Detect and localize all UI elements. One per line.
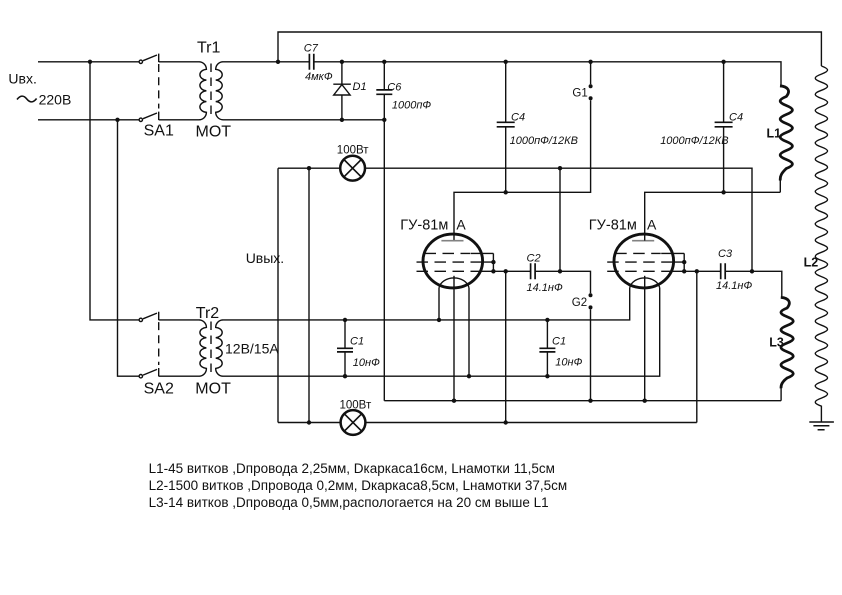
svg-text:ГУ-81м: ГУ-81м bbox=[400, 218, 448, 234]
junction lamp row / grid stub bbox=[558, 166, 562, 170]
svg-text:МОТ: МОТ bbox=[196, 124, 232, 141]
svg-text:C2: C2 bbox=[527, 253, 541, 265]
junction C3 wire / lamp row bbox=[750, 269, 754, 273]
svg-text:МОТ: МОТ bbox=[195, 381, 231, 398]
svg-text:4мкФ: 4мкФ bbox=[305, 71, 333, 83]
svg-text:SA1: SA1 bbox=[144, 123, 174, 140]
svg-text:L2-1500 витков ,Dпровода 0,2мм: L2-1500 витков ,Dпровода 0,2мм, Dкаркаса… bbox=[149, 478, 568, 493]
svg-text:Uвых.: Uвых. bbox=[246, 250, 285, 266]
svg-text:L3: L3 bbox=[769, 336, 784, 350]
svg-text:L2: L2 bbox=[804, 256, 819, 270]
wire C6 down to H7 bbox=[383, 120, 385, 401]
wire SA2 to Tr2 primary bottom bbox=[159, 375, 200, 377]
ground bbox=[809, 422, 834, 430]
svg-text:C3: C3 bbox=[718, 248, 733, 260]
capacitor C6 bbox=[376, 62, 392, 120]
junction U1 grid bracket upper bbox=[491, 260, 495, 264]
junction U2 grid wire / down wire bbox=[695, 269, 699, 273]
wire lamp row H4 right bbox=[365, 168, 752, 271]
wire input top to SA2 bbox=[90, 62, 139, 320]
capacitor C2 bbox=[531, 263, 536, 279]
junction rail / C4 second bbox=[721, 60, 725, 64]
junction U2 grid bracket lower bbox=[682, 269, 686, 273]
wire H8 grid return right bbox=[366, 422, 697, 424]
svg-text:C4: C4 bbox=[729, 111, 743, 123]
svg-text:Uвх.: Uвх. bbox=[8, 71, 36, 87]
capacitor C3 bbox=[721, 263, 726, 279]
wire input top bbox=[38, 61, 139, 63]
capacitor C4 second bbox=[715, 62, 733, 193]
lamp EL1 100W bbox=[340, 156, 365, 181]
lamp EL2 100W bbox=[341, 410, 366, 435]
svg-text:ГУ-81м: ГУ-81м bbox=[589, 218, 637, 234]
svg-text:D1: D1 bbox=[353, 81, 367, 93]
wire stub H4 to grid wire bbox=[559, 168, 561, 271]
junction H5 / C1 second bbox=[545, 318, 549, 322]
junction H7 / U1 filament bbox=[452, 399, 456, 403]
wire output loop right bbox=[308, 168, 310, 422]
junction input bottom / SA2 feed bbox=[115, 118, 119, 122]
wire U1 filament mid to H7 bbox=[453, 276, 455, 401]
junction U1 grid bracket lower bbox=[491, 269, 495, 273]
svg-text:14.1нФ: 14.1нФ bbox=[527, 282, 563, 294]
junction input top / SA2 feed bbox=[88, 60, 92, 64]
wire G2 to H7 bbox=[590, 309, 592, 400]
wire U2 filament mid to H7 bbox=[644, 276, 646, 401]
node G1 link from rail bbox=[590, 62, 592, 85]
wire lamp row H4 left bbox=[278, 167, 340, 169]
wire C3 to L3 top bbox=[725, 271, 782, 296]
wire top rail bbox=[223, 62, 781, 88]
svg-text:A: A bbox=[456, 217, 466, 233]
svg-text:C6: C6 bbox=[387, 82, 402, 94]
wire U2 grid to C3 bbox=[684, 270, 721, 272]
node G2 bbox=[589, 293, 593, 297]
junction H7 / U2 filament bbox=[643, 399, 647, 403]
wire U1 cathode left to H5 bbox=[438, 288, 440, 320]
svg-text:C1: C1 bbox=[350, 336, 364, 348]
diode D1 bbox=[333, 62, 351, 120]
svg-text:1000пФ/12КВ: 1000пФ/12КВ bbox=[510, 135, 578, 147]
junction rail / D1 bbox=[340, 60, 344, 64]
junction H7 / G2 wire bbox=[588, 399, 592, 403]
junction U2 grid bracket upper bbox=[682, 260, 686, 264]
junction lamp row / output loop bbox=[307, 166, 311, 170]
inductor L1 bbox=[780, 86, 792, 181]
wire input bottom bbox=[38, 119, 139, 121]
junction rail / C4 first bbox=[504, 60, 508, 64]
wire G1 to anode of U1 bbox=[454, 100, 591, 240]
junction H6 / C1 second bbox=[545, 374, 549, 378]
svg-text:Tr1: Tr1 bbox=[197, 39, 221, 56]
tube U1 GU-81m bbox=[417, 234, 494, 288]
svg-text:14.1нФ: 14.1нФ bbox=[716, 280, 752, 292]
svg-text:Tr2: Tr2 bbox=[196, 305, 220, 322]
wire grid2 node down to H8 bbox=[696, 271, 698, 422]
wire U1 cathode right to H6 bbox=[468, 288, 470, 376]
junction rail / G1 link bbox=[588, 60, 592, 64]
wire Tr1 secondary bottom bbox=[223, 119, 385, 121]
junction H5 / U1 cathode left bbox=[437, 318, 441, 322]
svg-text:C4: C4 bbox=[511, 111, 525, 123]
junction H8 / output loop bbox=[307, 420, 311, 424]
svg-text:G1: G1 bbox=[572, 88, 587, 100]
svg-text:1000пФ: 1000пФ bbox=[392, 100, 432, 112]
svg-text:L1-45 витков ,Dпровода 2,25мм,: L1-45 витков ,Dпровода 2,25мм, Dкаркаса1… bbox=[149, 461, 555, 476]
junction Tr1 secondary bottom / C6 bbox=[382, 118, 386, 122]
wire U2 anode to C4 and L1 bbox=[645, 192, 781, 240]
wire H8 grid return left bbox=[278, 422, 341, 424]
wire SA1 to Tr1 primary top bbox=[159, 61, 200, 63]
transformer Tr1 bbox=[199, 62, 223, 120]
tube U2 GU-81m bbox=[607, 234, 684, 288]
capacitor C1 first bbox=[337, 320, 353, 376]
AC tilde bbox=[17, 96, 37, 102]
svg-text:10нФ: 10нФ bbox=[353, 357, 380, 369]
junction anode U2 / C4 second bbox=[721, 190, 725, 194]
junction H5 / C1 first bbox=[343, 318, 347, 322]
svg-text:L1: L1 bbox=[767, 126, 782, 140]
capacitor C1 second bbox=[539, 320, 555, 376]
junction rail / top link bbox=[276, 60, 280, 64]
wire input bottom to SA2 bbox=[118, 120, 139, 376]
wire grid1 node down to H8 bbox=[505, 271, 507, 422]
wire U1 grid to C2 bbox=[493, 270, 530, 272]
inductor L2 bbox=[815, 66, 827, 422]
svg-text:SA2: SA2 bbox=[144, 380, 174, 397]
wire C2 to G2 bbox=[535, 271, 590, 293]
svg-text:220В: 220В bbox=[39, 92, 72, 108]
svg-text:12В/15А: 12В/15А bbox=[225, 341, 279, 357]
svg-text:C7: C7 bbox=[304, 43, 319, 55]
transformer Tr2 bbox=[199, 320, 223, 376]
switch SA1 bbox=[139, 54, 159, 122]
wire H7 filament return bbox=[384, 400, 781, 402]
junction U1 grid wire / down wire bbox=[504, 269, 508, 273]
inductor L3 bbox=[781, 297, 793, 388]
junction grid wire / stub bbox=[558, 269, 562, 273]
wire H6 Tr2 secondary bottom bbox=[223, 288, 660, 376]
node G1 bbox=[589, 84, 593, 88]
svg-text:A: A bbox=[647, 217, 657, 233]
junction anode U1 / C4 first bbox=[504, 190, 508, 194]
junction H8 / grid1 down wire bbox=[504, 420, 508, 424]
svg-text:100Вт: 100Вт bbox=[340, 400, 372, 412]
wire H5 Tr2 secondary top bbox=[223, 288, 630, 320]
junction Tr1 secondary bottom / D1 bbox=[340, 118, 344, 122]
switch SA2 bbox=[139, 312, 159, 378]
junction H6 / C1 first bbox=[343, 374, 347, 378]
svg-text:100Вт: 100Вт bbox=[337, 145, 369, 157]
svg-text:L3-14 витков ,Dпровода 0,5мм,р: L3-14 витков ,Dпровода 0,5мм,распологает… bbox=[149, 495, 549, 510]
wire H1 top link to L2 bbox=[278, 32, 821, 66]
wire SA2 to Tr2 primary top bbox=[159, 319, 200, 321]
svg-text:G2: G2 bbox=[572, 297, 587, 309]
junction H6 / U1 cathode right bbox=[467, 374, 471, 378]
svg-text:1000пФ/12КВ: 1000пФ/12КВ bbox=[660, 135, 728, 147]
capacitor C7 bbox=[309, 54, 313, 70]
wire SA1 to Tr1 primary bottom bbox=[159, 119, 200, 121]
wire L1 tail bbox=[779, 180, 781, 193]
wire L3 tail bbox=[780, 387, 782, 401]
junction rail / C6 bbox=[382, 60, 386, 64]
wire output loop left bbox=[277, 168, 279, 422]
svg-text:C1: C1 bbox=[552, 336, 566, 348]
svg-text:10нФ: 10нФ bbox=[555, 357, 582, 369]
capacitor C4 first bbox=[497, 62, 515, 193]
